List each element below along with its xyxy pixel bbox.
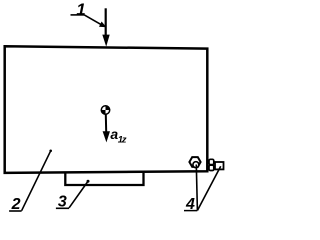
label 1 underline	[71, 14, 85, 16]
label 3 underline	[56, 207, 69, 209]
block 2 (mass body outline)	[5, 46, 208, 173]
label 2 underline	[9, 210, 22, 212]
acceleration arrow a1z (head)	[103, 131, 110, 142]
force arrow 1 (shaft)	[105, 8, 107, 36]
bolt hex head	[189, 157, 200, 167]
CG symbol filled quadrants (top-right, bottom-left)	[101, 105, 111, 115]
bolt shaft ring	[193, 162, 199, 168]
leader line 3 end dot	[87, 180, 90, 183]
leader line 1	[84, 15, 101, 25]
svg-text:1: 1	[76, 0, 85, 19]
sensor body (square)	[215, 162, 224, 169]
CG symbol ring	[101, 106, 109, 114]
force arrow 1 (head)	[102, 35, 109, 47]
leader line 1 arrowhead	[99, 22, 106, 28]
sensor clamp (double square "8")	[209, 159, 214, 164]
acceleration arrow a1z (shaft)	[105, 115, 107, 133]
label 4 underline	[184, 210, 197, 212]
leader line 2 end dot	[49, 150, 52, 153]
leader line 4 to bolt	[196, 165, 197, 211]
base 3 (bottom tab outline)	[65, 172, 143, 185]
leader line 4 to sensor	[197, 166, 220, 210]
leader line 2	[22, 151, 51, 211]
svg-text:z: z	[121, 134, 127, 145]
leader line 3	[69, 181, 88, 207]
